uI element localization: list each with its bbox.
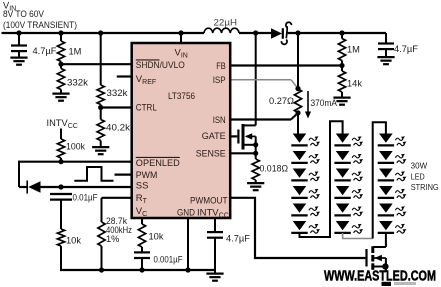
svg-text:ISP: ISP: [213, 75, 226, 86]
svg-text:CTRL: CTRL: [136, 103, 157, 114]
svg-text:0.001µF: 0.001µF: [154, 254, 183, 264]
svg-text:0.01µF: 0.01µF: [73, 192, 98, 202]
svg-text:332k: 332k: [67, 78, 88, 88]
svg-text:4.7µF: 4.7µF: [33, 46, 57, 56]
svg-text:GND: GND: [177, 207, 195, 218]
svg-text:SENSE: SENSE: [196, 149, 226, 160]
svg-text:ISN: ISN: [213, 115, 226, 126]
svg-text:(100V TRANSIENT): (100V TRANSIENT): [3, 20, 77, 30]
svg-text:STRING: STRING: [411, 183, 439, 192]
svg-text:WWW.EASTLED.COM: WWW.EASTLED.COM: [324, 269, 436, 285]
svg-text:SS: SS: [136, 180, 149, 191]
svg-text:PWMOUT: PWMOUT: [190, 195, 228, 206]
svg-text:LT3756: LT3756: [168, 91, 195, 101]
svg-text:0.018Ω: 0.018Ω: [260, 163, 289, 173]
svg-text:FB: FB: [216, 61, 226, 72]
svg-text:1M: 1M: [69, 46, 82, 56]
svg-text:14k: 14k: [347, 78, 362, 88]
svg-text:4.7µF: 4.7µF: [226, 233, 250, 243]
svg-text:4.7µF: 4.7µF: [394, 44, 418, 54]
svg-text:10k: 10k: [66, 235, 81, 245]
svg-text:30W: 30W: [411, 162, 428, 171]
svg-text:0.27Ω: 0.27Ω: [269, 96, 294, 106]
svg-text:332k: 332k: [107, 88, 128, 98]
svg-text:GATE: GATE: [202, 131, 226, 142]
svg-text:370mA: 370mA: [311, 98, 338, 108]
svg-text:10k: 10k: [149, 231, 164, 241]
svg-text:1%: 1%: [106, 234, 119, 244]
svg-text:OPENLED: OPENLED: [136, 158, 180, 169]
svg-text:LED: LED: [411, 172, 425, 181]
svg-text:8V TO 60V: 8V TO 60V: [3, 9, 45, 19]
svg-text:40.2k: 40.2k: [106, 122, 130, 132]
svg-text:100k: 100k: [66, 142, 85, 152]
svg-text:SHDN/UVLO: SHDN/UVLO: [136, 60, 185, 71]
svg-text:22µH: 22µH: [214, 17, 238, 27]
svg-text:PWM: PWM: [136, 170, 158, 181]
svg-text:1M: 1M: [347, 44, 360, 54]
